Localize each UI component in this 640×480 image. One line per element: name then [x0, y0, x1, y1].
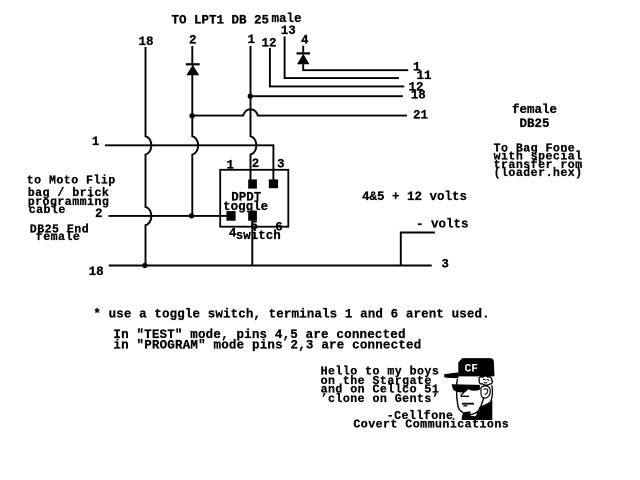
- switch box outline: [220, 170, 288, 227]
- wire: LPT pin 13 vertical and horizontal to female 11: [285, 37, 399, 79]
- mascot sunglasses: [452, 384, 480, 392]
- svg-text:1: 1: [227, 159, 235, 173]
- svg-text:’clone on Gents’: ’clone on Gents’: [321, 393, 440, 406]
- mascot nose: [461, 391, 469, 397]
- switch terminal pad top-right (pin 3): [269, 179, 278, 188]
- svg-text:12: 12: [262, 36, 277, 50]
- wire: female 18 horizontal: [251, 95, 403, 97]
- svg-text:- volts: - volts: [416, 218, 469, 232]
- svg-text:1: 1: [248, 33, 256, 47]
- wire: female 21 horizontal with hop over pin-1 wire: [192, 109, 407, 115]
- svg-text:4: 4: [301, 33, 309, 47]
- svg-text:* use a toggle switch, termina: * use a toggle switch, terminals 1 and 6…: [93, 308, 489, 322]
- mascot right head edge: [491, 385, 493, 401]
- mascot cap brim: [444, 372, 458, 378]
- svg-text:3: 3: [441, 258, 449, 272]
- mascot cap body: [458, 358, 494, 376]
- mascot chin line: [463, 405, 467, 407]
- mascot hair curl: [479, 376, 492, 385]
- mascot neck and collar: [462, 400, 493, 420]
- wire: DB25-End pin 18 horizontal to female 3: [109, 265, 432, 267]
- wire: DB25-End pin 1 horizontal to switch pin 3: [105, 145, 274, 179]
- svg-text:3: 3: [277, 158, 285, 172]
- svg-text:cable: cable: [29, 204, 66, 217]
- switch terminal pad top-middle (pin 2): [248, 179, 257, 188]
- wire: switch pin 5 down to 18/3 rail: [251, 221, 253, 266]
- junction dot: diode2/female21: [189, 113, 194, 118]
- mascot: Cellfone face pixel art: [444, 358, 494, 420]
- svg-text:1: 1: [92, 135, 100, 149]
- wire: LPT pin 12 vertical and horizontal to female 12: [270, 48, 404, 86]
- svg-text:TO LPT1 DB 25: TO LPT1 DB 25: [172, 14, 270, 28]
- svg-text:18: 18: [89, 265, 104, 279]
- svg-text:switch: switch: [236, 229, 281, 243]
- diode D1 cathode bar on LPT pin 2 line: [186, 63, 200, 65]
- mascot ear: [481, 386, 490, 398]
- mascot mouth: [462, 403, 474, 405]
- svg-text:4&5 + 12 volts: 4&5 + 12 volts: [362, 190, 467, 204]
- wire: LPT pin 2 vertical (diode branch): [192, 46, 198, 216]
- mascot face outline: [457, 379, 484, 415]
- mascot hair curl dots: [483, 379, 489, 383]
- wire: minus volts tap: [401, 233, 435, 266]
- wire: LPT pin 4 vertical (diode branch) to female 1: [303, 46, 408, 70]
- wire: DB25-End pin 2 horizontal to switch pin 4: [108, 215, 226, 217]
- svg-text:in "PROGRAM" mode pins 2,3 are: in "PROGRAM" mode pins 2,3 are connected: [113, 339, 421, 353]
- svg-text:to Moto Flip: to Moto Flip: [27, 174, 116, 187]
- diode D2 cathode bar on LPT pin 4 line: [297, 52, 311, 54]
- svg-text:female: female: [512, 103, 557, 117]
- switch terminal pad bottom-left (pin 4): [226, 211, 235, 221]
- wire: DB25-End pin 18 vertical from top: [146, 47, 152, 266]
- svg-text:toggle: toggle: [223, 200, 268, 214]
- svg-text:2: 2: [95, 207, 103, 221]
- svg-text:(loader.hex): (loader.hex): [494, 167, 583, 180]
- svg-text:female: female: [36, 231, 81, 244]
- junction dot: diode2/DB25End-2: [189, 213, 194, 218]
- svg-text:21: 21: [413, 108, 428, 122]
- svg-text:18: 18: [411, 89, 426, 103]
- svg-text:DB25: DB25: [520, 117, 550, 131]
- svg-text:18: 18: [139, 35, 154, 49]
- mascot ear inner: [484, 389, 488, 395]
- svg-text:2: 2: [252, 157, 260, 171]
- diode D1 triangle: [186, 65, 199, 76]
- junction dot: pin1/female18: [248, 94, 253, 99]
- svg-text:Covert Communications: Covert Communications: [353, 419, 509, 432]
- diode D2 triangle: [297, 54, 310, 64]
- svg-text:CF: CF: [465, 364, 478, 376]
- svg-text:2: 2: [189, 33, 197, 47]
- svg-text:13: 13: [281, 24, 296, 38]
- switch terminal pad bottom-middle (pin 5): [248, 211, 257, 221]
- wire: LPT pin 1 vertical: [251, 46, 257, 179]
- junction dot: 18 vertical / bottom rail: [142, 263, 147, 268]
